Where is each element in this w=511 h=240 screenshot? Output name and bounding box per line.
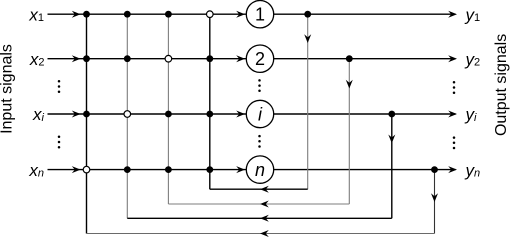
wire feedback tap 4 vertical	[434, 170, 436, 234]
wire output row 1	[274, 13, 456, 15]
svg-text:1: 1	[255, 5, 265, 25]
ellipsis right between y2 and yi	[453, 81, 456, 94]
wire feedback tap 2 vertical	[348, 59, 350, 204]
svg-text:Input signals: Input signals	[0, 44, 16, 134]
down arrows on feedback taps	[304, 34, 311, 43]
ellipsis right between yi and yn	[453, 136, 456, 149]
junction dots row i	[83, 111, 90, 118]
ellipsis left between x2 and xi	[58, 80, 61, 93]
wire input row 1	[48, 13, 247, 15]
wire input row 2	[48, 58, 247, 60]
junction dots row 1	[83, 11, 90, 18]
open connection row n / column 1	[83, 166, 90, 173]
wire output row n	[274, 169, 456, 171]
wire feedback tap 1 vertical	[307, 14, 309, 189]
wire feedback tap 3 vertical	[391, 114, 393, 218]
neuron 2	[246, 45, 273, 72]
left arrows on bottom loops	[260, 186, 269, 193]
ellipsis neuron column between i and n	[258, 135, 261, 148]
wire output row 2	[274, 58, 456, 60]
junction dots row 2	[83, 55, 90, 62]
open connection row i / column 2	[124, 111, 131, 118]
neuron 1	[246, 1, 273, 28]
svg-text:n: n	[255, 160, 265, 180]
wire feedback column 1 (from neuron n)	[86, 14, 88, 233]
wire feedback bottom loop 4	[87, 233, 435, 235]
wire feedback bottom loop 2	[168, 203, 349, 205]
wire feedback bottom loop 1	[210, 188, 308, 190]
svg-text:2: 2	[255, 49, 265, 69]
ellipsis neuron column between 2 and i	[258, 79, 261, 92]
neuron i	[246, 100, 273, 127]
open connection row 2 / column 3	[165, 55, 172, 62]
neuron n	[246, 156, 273, 183]
wire input row i	[48, 113, 247, 115]
open (no self-feedback) connection row 1 / column 4	[207, 11, 214, 18]
output arrows	[448, 11, 457, 18]
wire feedback column 3 (from neuron 2)	[167, 14, 169, 204]
wire input row n	[48, 169, 247, 171]
input arrows	[72, 11, 81, 18]
wire feedback bottom loop 3	[127, 217, 392, 219]
wire output row i	[274, 113, 456, 115]
wire feedback column 4 (from neuron 1)	[209, 14, 211, 189]
wire feedback column 2 (from neuron i)	[126, 14, 128, 218]
ellipsis left between xi and xn	[58, 136, 61, 149]
neuron entry arrows	[236, 11, 245, 18]
svg-text:Output signals: Output signals	[493, 34, 510, 136]
junction dots row n	[124, 166, 131, 173]
